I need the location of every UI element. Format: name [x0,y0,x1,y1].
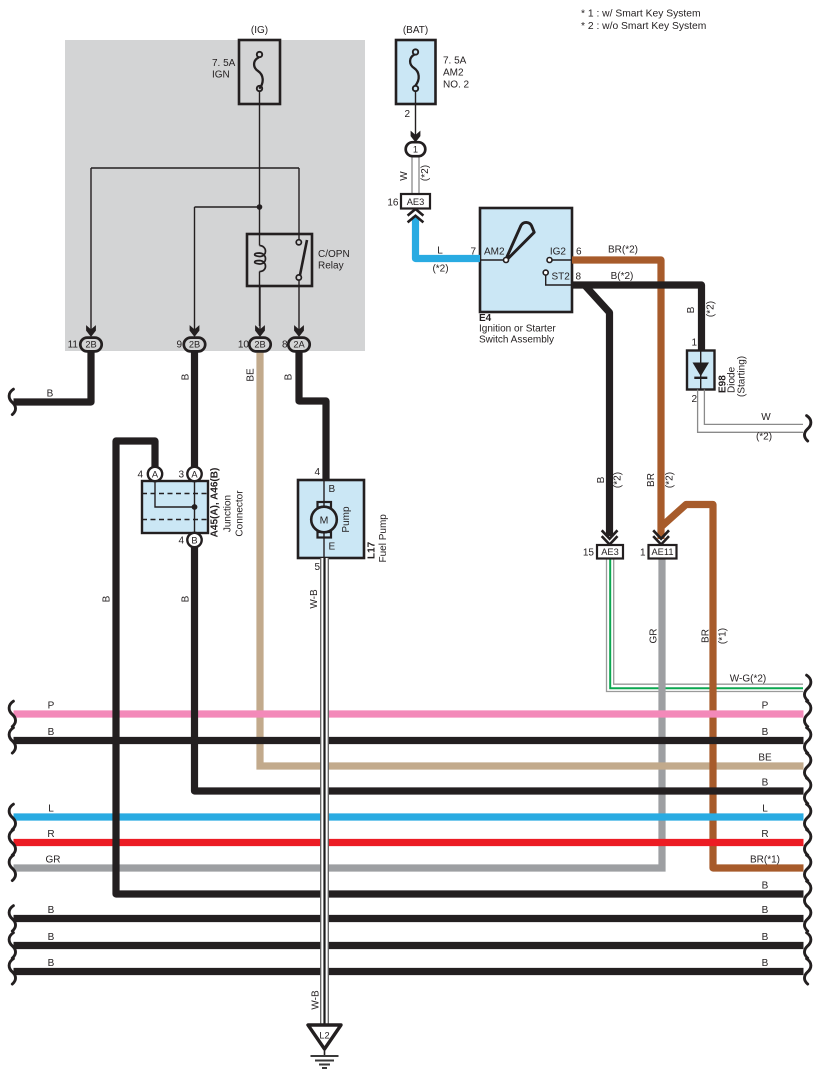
svg-text:1: 1 [413,145,418,155]
svg-text:AE11: AE11 [651,547,673,557]
svg-text:10: 10 [238,340,250,351]
svg-text:R: R [761,829,768,840]
svg-text:Ignition or Starter: Ignition or Starter [479,324,556,335]
svg-text:C/OPN: C/OPN [318,249,350,260]
svg-text:* 2 : w/o Smart Key System: * 2 : w/o Smart Key System [581,21,706,32]
svg-text:4: 4 [137,470,143,481]
svg-text:2: 2 [404,109,410,120]
svg-text:B: B [762,958,769,969]
svg-text:B: B [762,727,769,738]
svg-text:B: B [762,932,769,943]
svg-text:B: B [181,373,192,380]
svg-text:IG2: IG2 [550,247,567,258]
svg-text:AE3: AE3 [601,547,619,557]
svg-text:(*2): (*2) [432,264,448,275]
svg-text:B: B [762,778,769,789]
svg-text:Switch Assembly: Switch Assembly [479,335,554,346]
svg-text:1: 1 [640,548,646,559]
svg-text:A: A [152,469,159,479]
svg-text:Fuel Pump: Fuel Pump [378,514,389,563]
svg-text:B: B [47,389,54,400]
svg-text:NO. 2: NO. 2 [443,80,470,91]
svg-text:L17: L17 [367,541,378,559]
svg-text:9: 9 [176,340,182,351]
svg-text:8: 8 [576,272,582,283]
svg-text:B: B [48,727,55,738]
svg-text:15: 15 [583,548,595,559]
svg-text:B: B [762,905,769,916]
svg-text:AM2: AM2 [484,247,505,258]
svg-text:1: 1 [691,338,697,349]
svg-text:(IG): (IG) [251,25,268,36]
svg-text:B: B [48,932,55,943]
svg-text:BE: BE [758,753,772,764]
svg-text:(*2): (*2) [420,165,431,181]
svg-text:B: B [762,881,769,892]
svg-text:2B: 2B [85,340,96,350]
svg-text:2A: 2A [293,340,305,350]
svg-text:BR(*1): BR(*1) [750,855,780,866]
svg-text:B: B [284,373,295,380]
svg-text:3: 3 [178,470,184,481]
svg-text:11: 11 [68,340,79,351]
svg-text:Pump: Pump [341,506,352,533]
svg-text:L: L [437,246,443,257]
svg-text:E4: E4 [479,313,492,324]
svg-text:P: P [762,701,769,712]
svg-text:(*2): (*2) [706,301,717,317]
svg-text:Relay: Relay [318,261,344,272]
svg-text:R: R [47,829,54,840]
svg-text:B: B [48,958,55,969]
svg-text:(*2): (*2) [613,472,624,488]
svg-text:4: 4 [178,536,184,547]
svg-text:5: 5 [314,562,320,573]
svg-text:L2: L2 [319,1031,329,1041]
svg-text:8: 8 [282,340,288,351]
svg-text:7. 5A: 7. 5A [212,58,236,69]
svg-text:7: 7 [470,247,476,258]
svg-text:BR(*2): BR(*2) [608,245,638,256]
svg-text:B(*2): B(*2) [611,271,634,282]
svg-text:2B: 2B [254,340,265,350]
svg-text:GR: GR [46,855,61,866]
svg-text:W: W [399,171,410,181]
svg-text:AM2: AM2 [443,68,464,79]
svg-text:W-G(*2): W-G(*2) [730,674,766,685]
svg-text:BR: BR [646,473,657,487]
svg-text:B: B [181,595,192,602]
svg-text:B: B [191,535,197,545]
svg-text:BE: BE [246,368,257,382]
svg-text:A: A [191,469,198,479]
svg-text:4: 4 [314,467,320,478]
svg-text:GR: GR [649,629,660,644]
svg-text:L: L [762,804,768,815]
svg-text:B: B [686,306,697,313]
svg-text:W-B: W-B [309,589,320,609]
svg-text:L: L [48,804,54,815]
svg-text:* 1 : w/ Smart Key System: * 1 : w/ Smart Key System [581,9,701,20]
svg-text:(*2): (*2) [756,432,772,443]
svg-text:7. 5A: 7. 5A [443,56,467,67]
svg-text:IGN: IGN [212,70,230,81]
svg-text:W: W [761,412,771,423]
svg-text:2: 2 [691,394,697,405]
svg-text:AE3: AE3 [407,197,425,207]
svg-text:(*1): (*1) [718,628,729,644]
svg-text:Connector: Connector [235,490,246,537]
svg-text:P: P [48,701,55,712]
svg-text:(BAT): (BAT) [403,25,428,36]
svg-text:(Starting): (Starting) [737,356,748,397]
svg-text:B: B [48,905,55,916]
svg-text:BR: BR [701,629,712,643]
svg-text:2B: 2B [189,340,200,350]
svg-text:6: 6 [576,247,582,258]
svg-text:M: M [320,515,329,527]
svg-text:ST2: ST2 [552,272,571,283]
svg-text:A45(A), A46(B): A45(A), A46(B) [210,468,221,538]
svg-text:B: B [329,484,336,495]
svg-text:B: B [596,476,607,483]
svg-text:B: B [102,595,113,602]
svg-text:16: 16 [387,198,399,209]
svg-text:(*2): (*2) [665,472,676,488]
svg-text:Junction: Junction [223,495,234,532]
svg-text:E: E [329,542,336,553]
svg-text:W-B: W-B [311,990,322,1010]
